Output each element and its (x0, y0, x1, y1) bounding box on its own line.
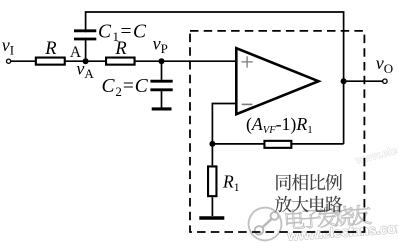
watermark text dianzifashaoyou (285, 204, 371, 230)
output node junction (341, 78, 347, 84)
annotation line2 fangdadianlu (275, 196, 292, 213)
watermark url top right (354, 133, 398, 168)
wire: C2 branch (161, 61, 163, 80)
svg-text:A: A (70, 44, 82, 61)
wire: top rail from node A over C1 to output (85, 38, 87, 62)
watermark url (286, 219, 398, 243)
node A junction (83, 58, 89, 64)
svg-text:C2=C: C2=C (102, 76, 149, 99)
wire: output to terminal (344, 80, 383, 82)
ground under R1 (199, 216, 224, 219)
output terminal vO (383, 79, 387, 83)
op-amp plus input sign (241, 56, 252, 67)
resistor R1 vertical (208, 166, 216, 196)
capacitor C2 plates (150, 81, 172, 90)
resistor R (first) (36, 58, 65, 65)
op-amp U1 (236, 48, 318, 114)
wire: input main line (11, 60, 237, 62)
dashed amplifier box (190, 31, 364, 232)
svg-text:C1=C: C1=C (98, 21, 148, 44)
wire: feedback line (212, 143, 343, 145)
resistor (AVF-1)R1 feedback (264, 141, 291, 148)
annotation line1 tongxiangbili (276, 174, 291, 190)
input terminal vI (7, 59, 11, 63)
capacitor C1 plates (74, 31, 96, 39)
ground under C2 (152, 107, 172, 110)
op-amp minus input sign (242, 103, 253, 105)
resistor R (second) (106, 58, 135, 65)
node vP junction (159, 58, 165, 64)
wire: R1 to ground (211, 144, 213, 216)
wire: minus input loop (212, 104, 236, 144)
svg-text:(AVF-1)R1: (AVF-1)R1 (246, 114, 313, 136)
watermark logo (247, 206, 282, 241)
svg-text:R: R (44, 39, 56, 59)
minus node junction (209, 141, 215, 147)
